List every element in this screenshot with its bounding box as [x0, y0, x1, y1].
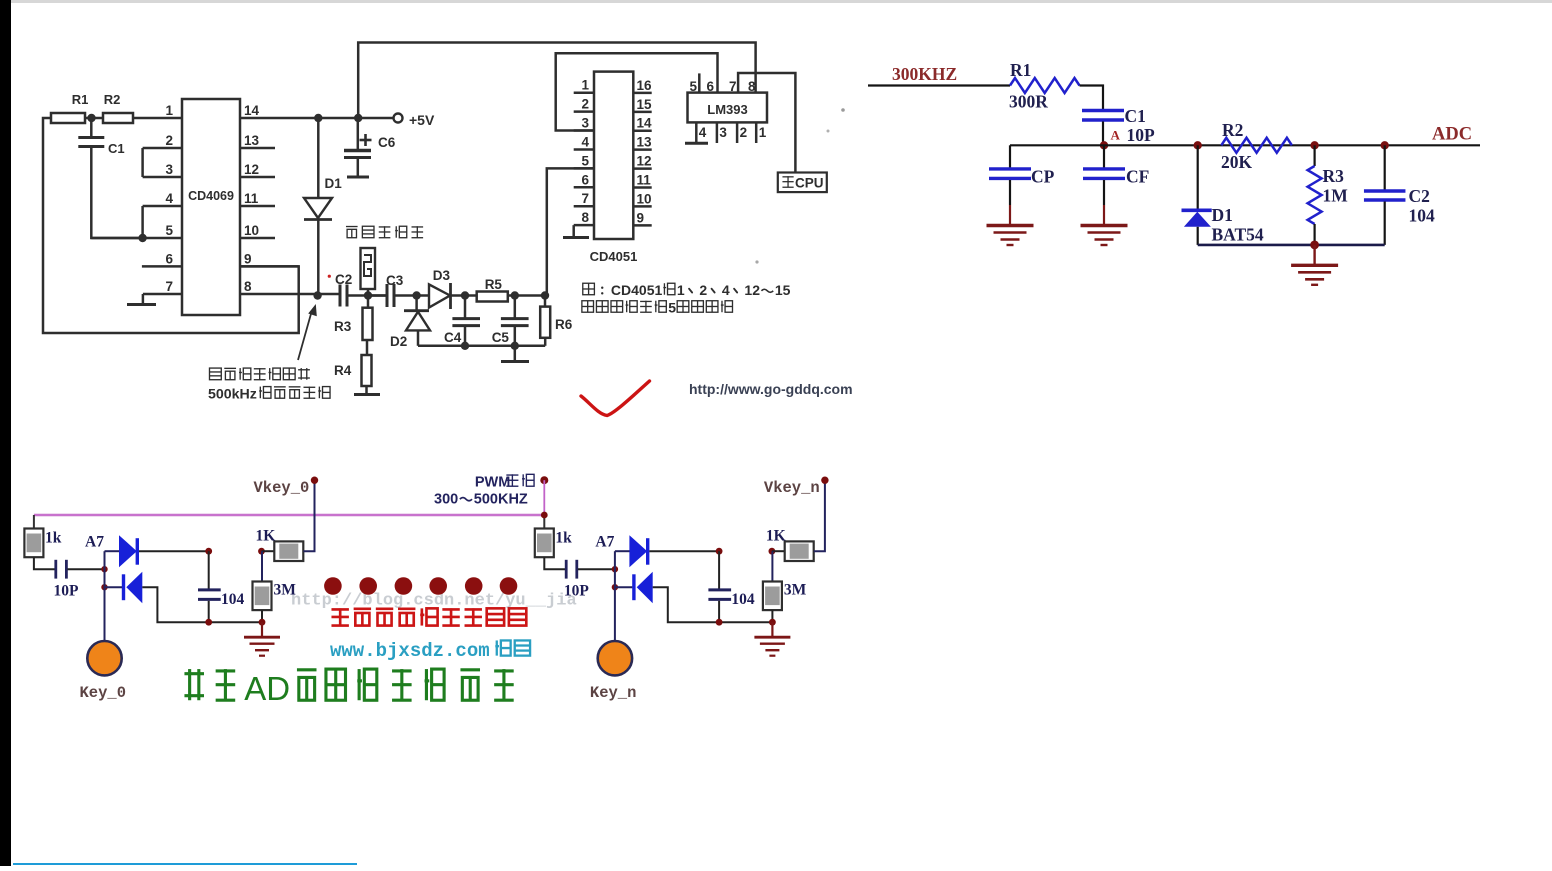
- resistor 1K (unit 0): [256, 528, 304, 562]
- wire A7 riser (unit n): [614, 551, 616, 587]
- svg-text:1K: 1K: [766, 528, 786, 545]
- capacitor 104 (unit 0): [198, 551, 245, 622]
- svg-text:4: 4: [581, 134, 589, 149]
- svg-text:3: 3: [581, 116, 589, 131]
- CD4051 pin 5: [574, 153, 594, 168]
- svg-text:7: 7: [581, 191, 589, 206]
- wire Vkey_n riser: [814, 480, 825, 551]
- label: spring touch key: [346, 226, 423, 237]
- svg-text:6: 6: [707, 79, 715, 94]
- diode up-branch (unit n): [615, 535, 719, 567]
- svg-text:http://www.go-gddq.com: http://www.go-gddq.com: [689, 381, 853, 397]
- CD4051 pin 13: [633, 135, 652, 150]
- LM393 pin 6: [707, 79, 715, 94]
- svg-text:C2: C2: [335, 272, 352, 287]
- CD4051 pin 6: [574, 172, 594, 187]
- IC U2 CD4051 body: [590, 72, 638, 264]
- spring touch key symbol: [361, 248, 376, 296]
- svg-text:300R: 300R: [1009, 92, 1048, 112]
- svg-text:500kHz: 500kHz: [208, 387, 257, 403]
- +5V terminal: [394, 112, 435, 128]
- svg-text:CF: CF: [1126, 167, 1149, 187]
- wire bottom rail D1-R3-C2: [1198, 244, 1385, 247]
- node 104 bottom junction (unit n): [716, 619, 723, 626]
- svg-text:LM393: LM393: [707, 102, 747, 117]
- resistor R2: [103, 92, 133, 123]
- svg-text:10: 10: [637, 191, 652, 206]
- svg-text:8: 8: [748, 79, 756, 94]
- node main-D1 junction: [1194, 141, 1202, 149]
- svg-text:1: 1: [165, 103, 173, 118]
- capacitor C5: [492, 296, 529, 346]
- node D3 - C4 - R5 junction: [461, 291, 469, 299]
- svg-text:104: 104: [1409, 206, 1436, 226]
- svg-text:12: 12: [637, 154, 652, 169]
- CD4069 pin 6: [142, 251, 182, 266]
- diode D1 BAT54: [1182, 145, 1264, 245]
- svg-text:Key_n: Key_n: [590, 684, 637, 702]
- node filter cap top junction (unit 0): [205, 548, 212, 555]
- svg-text:C1: C1: [1125, 106, 1146, 126]
- wire A7 riser (unit 0): [104, 551, 106, 587]
- caption: any number of identical units (red): [331, 608, 526, 625]
- capacitor 104 (unit n): [708, 551, 755, 622]
- svg-text:5: 5: [668, 300, 676, 316]
- wire CD4051 pin3 to LM393 pin 6 (inner top wire): [556, 53, 718, 130]
- resistor 1k (unit 0): [24, 515, 61, 557]
- terminal Vkey_n: [764, 477, 829, 498]
- node pin14 - +5V riser junction: [354, 114, 362, 122]
- CD4051 pin 14: [633, 116, 652, 131]
- svg-text:13: 13: [637, 135, 653, 150]
- svg-text:BAT54: BAT54: [1212, 225, 1264, 245]
- svg-text:R4: R4: [334, 363, 352, 378]
- to-CPU box: [778, 173, 827, 193]
- svg-text:104: 104: [731, 591, 755, 608]
- node lower branch junction (unit n): [612, 584, 618, 590]
- svg-text:CD4051: CD4051: [590, 249, 638, 264]
- wire C1 to pin 5 line: [91, 147, 142, 239]
- node ground junction (unit n): [769, 619, 776, 626]
- svg-text:4: 4: [165, 191, 173, 206]
- CD4069 pin 8: [240, 279, 340, 294]
- CD4069 pin 12: [240, 162, 275, 177]
- node R2-R3 junction: [1310, 141, 1318, 149]
- resistor 3M (unit n): [763, 551, 807, 622]
- svg-text:CP: CP: [1031, 167, 1055, 187]
- diode down-branch (unit n): [615, 572, 773, 623]
- svg-text:CD4051: CD4051: [611, 282, 663, 298]
- svg-text:12: 12: [744, 282, 760, 298]
- svg-text:D1: D1: [325, 176, 343, 191]
- CD4051 pin 4: [574, 134, 594, 149]
- node ground junction (unit 0): [259, 619, 266, 626]
- LM393 pin 1: [756, 122, 767, 143]
- svg-text:Vkey_n: Vkey_n: [764, 479, 820, 497]
- svg-text:2: 2: [581, 97, 589, 112]
- svg-text:Key_0: Key_0: [80, 684, 127, 702]
- LM393 pin 5: [689, 73, 699, 94]
- svg-text:C3: C3: [386, 273, 404, 288]
- svg-text:CD4069: CD4069: [188, 189, 234, 203]
- capacitor C2 of CD4069 section: [335, 272, 352, 307]
- svg-text:11: 11: [244, 191, 259, 206]
- svg-text:8: 8: [244, 279, 252, 294]
- svg-text:16: 16: [637, 78, 653, 93]
- CD4051 pin 8: [574, 210, 594, 225]
- svg-text:1M: 1M: [1323, 186, 1349, 206]
- svg-text:3M: 3M: [784, 582, 807, 599]
- node 1K-3M junction (unit n): [769, 548, 776, 555]
- diode D3: [405, 268, 465, 309]
- svg-text:8: 8: [581, 210, 589, 225]
- wire PWM line (magenta): [34, 513, 544, 517]
- wire CD4069 pins 2-3 link: [141, 148, 144, 177]
- wire C2 to spring key node: [347, 294, 387, 297]
- resistor R3 of CD4069 section: [334, 296, 373, 341]
- svg-text:3M: 3M: [274, 582, 297, 599]
- svg-text:ADC: ADC: [1432, 125, 1472, 145]
- terminal PWM with drop to unit n: [540, 476, 548, 518]
- svg-text:A: A: [1111, 128, 1121, 143]
- wire main node row to ADC: [1010, 144, 1480, 146]
- touch pad Key_n: [590, 587, 637, 702]
- CD4069 pin 4: [143, 191, 182, 206]
- node 104 bottom junction (unit 0): [205, 619, 212, 626]
- CD4051 pin 2: [574, 97, 594, 112]
- terminal Vkey_0: [254, 477, 319, 498]
- label A7 (unit n): [595, 534, 614, 551]
- wire C5 node to R6 node: [515, 294, 545, 297]
- LM393 pin 7 to CPU: [729, 73, 795, 173]
- svg-text:A7: A7: [85, 534, 104, 551]
- svg-text:R2: R2: [104, 92, 121, 107]
- svg-text:C6: C6: [378, 135, 396, 150]
- svg-text:1: 1: [677, 282, 685, 298]
- svg-text:2: 2: [699, 282, 707, 298]
- resistor R4 of CD4069 section: [334, 340, 380, 395]
- svg-text:6: 6: [165, 251, 173, 266]
- red speck near C2: [328, 275, 331, 278]
- node R5 - C5 junction: [511, 291, 519, 299]
- svg-text:10P: 10P: [54, 583, 80, 600]
- CD4069 pin 7: [143, 279, 182, 294]
- CD4069 pin 2: [143, 133, 182, 148]
- caption: www.bjxsdz.com (teal): [330, 640, 530, 662]
- CD4051 pin 15: [633, 97, 652, 112]
- node spring key junction: [364, 291, 372, 299]
- svg-text:3: 3: [719, 125, 727, 140]
- ground at rail: [1291, 245, 1338, 285]
- svg-text:1: 1: [581, 78, 589, 93]
- svg-text:10: 10: [244, 223, 259, 238]
- note text about CD4051 pins: [582, 282, 791, 316]
- svg-text:1k: 1k: [555, 530, 572, 547]
- svg-text:D3: D3: [433, 268, 451, 283]
- wire CD4051 pin5 to R6 node: [547, 168, 594, 295]
- wire R2 to CD4069 pin 1: [133, 117, 182, 120]
- node lower branch junction (unit 0): [101, 584, 107, 590]
- ground (unit 0): [244, 622, 280, 656]
- node A: [1100, 128, 1121, 150]
- wire bottom rail D2-C4-C5-R6: [418, 345, 545, 348]
- svg-text:PWM: PWM: [475, 475, 510, 491]
- node main-C2 junction: [1381, 141, 1389, 149]
- node R1-R2-C1 junction: [87, 114, 95, 122]
- label PWM signal: [434, 474, 534, 507]
- node C1 wire - pin5 junction: [138, 234, 146, 242]
- svg-text:C5: C5: [492, 330, 510, 345]
- svg-text:20K: 20K: [1221, 152, 1253, 172]
- svg-text:D2: D2: [390, 334, 407, 349]
- CD4051 pin 7: [574, 191, 594, 206]
- svg-text:15: 15: [775, 282, 791, 298]
- svg-text:5: 5: [165, 223, 173, 238]
- LM393 pin 4: [696, 122, 707, 143]
- svg-text:R6: R6: [555, 317, 573, 332]
- svg-text:4: 4: [722, 282, 730, 298]
- wire R1 to R2: [85, 117, 103, 120]
- svg-text:C1: C1: [108, 141, 125, 156]
- svg-text:R5: R5: [485, 277, 503, 292]
- net label 300KHZ with input wire: [868, 64, 1010, 86]
- capacitor 10P (unit n): [544, 557, 614, 599]
- node R6 top junction: [541, 291, 549, 299]
- ground at LM393 pin 4: [685, 142, 708, 145]
- svg-text:4: 4: [699, 125, 707, 140]
- net label ADC: [1432, 125, 1472, 145]
- capacitor C1: [78, 118, 124, 156]
- ground at C5 rail: [501, 346, 529, 362]
- capacitor C2 104: [1364, 145, 1435, 245]
- svg-text:A7: A7: [595, 534, 614, 551]
- IC U3 LM393 body: [688, 93, 768, 123]
- svg-text:2: 2: [165, 133, 173, 148]
- node A7 input junction (unit n): [612, 566, 618, 572]
- capacitor C6: [344, 118, 396, 177]
- svg-text:3: 3: [165, 162, 173, 177]
- svg-text:9: 9: [637, 210, 645, 225]
- node rail center junction: [1310, 241, 1319, 250]
- IC U1 CD4069 body: [182, 99, 240, 315]
- LM393 pin 3: [717, 122, 728, 143]
- svg-text:Vkey_0: Vkey_0: [254, 479, 310, 497]
- node C5 rail junction: [511, 342, 519, 350]
- svg-text:13: 13: [244, 133, 260, 148]
- resistor 1k (unit n): [535, 515, 572, 557]
- capacitor C3: [368, 273, 405, 307]
- capacitor CF with ground: [1081, 145, 1150, 245]
- svg-text:+5V: +5V: [409, 112, 435, 128]
- resistor R2 20K: [1221, 120, 1292, 172]
- svg-text:300KHZ: 300KHZ: [892, 64, 957, 84]
- CD4051 pin 16: [633, 78, 652, 93]
- svg-text:www.bjxsdz.com: www.bjxsdz.com: [330, 640, 490, 662]
- diode down-branch (unit 0): [105, 572, 263, 623]
- CD4069 pin 10: [240, 223, 275, 238]
- title: touch keys using AD method (green): [184, 669, 513, 707]
- CD4051 pin 9: [633, 210, 651, 225]
- svg-text:10P: 10P: [1127, 125, 1156, 145]
- CD4069 pin 9: [240, 251, 299, 266]
- capacitor CP with ground: [987, 145, 1055, 245]
- svg-text:AD: AD: [244, 670, 290, 707]
- resistor R3 1M: [1308, 145, 1349, 245]
- svg-text:CPU: CPU: [795, 176, 824, 191]
- ground at CD4069 pin 7: [127, 294, 156, 305]
- CD4051 pin 10: [633, 191, 651, 206]
- svg-text:C4: C4: [444, 330, 462, 345]
- CD4069 pin 14: [240, 103, 394, 118]
- CD4069 pin 11: [240, 191, 275, 206]
- annotation arrow to pin8 node: [298, 304, 317, 360]
- svg-text:104: 104: [221, 591, 245, 608]
- ground at CD4051 pin 8: [563, 225, 589, 237]
- wire +5V rail to LM393 pin 8 (top outer wire): [358, 43, 755, 119]
- touch pad Key_0: [80, 587, 127, 702]
- resistor 3M (unit 0): [253, 551, 297, 622]
- svg-text:9: 9: [244, 251, 252, 266]
- wire CD4069 pins 4-5 link: [141, 206, 144, 238]
- watermark blog.csdn.net: [291, 592, 577, 611]
- svg-text:5: 5: [581, 153, 589, 168]
- CD4069 pin 5: [91, 223, 182, 238]
- resistor R6: [540, 296, 573, 346]
- svg-text:11: 11: [637, 173, 652, 188]
- LM393 pin 2: [737, 122, 747, 143]
- node A7 input junction (unit 0): [101, 566, 107, 572]
- CD4051 pin 1: [574, 78, 594, 93]
- annotation text: square wave note: [208, 368, 330, 402]
- node filter cap top junction (unit n): [716, 548, 723, 555]
- svg-text:15: 15: [637, 97, 653, 112]
- svg-text:5: 5: [689, 79, 697, 94]
- wire feedback loop from CD4069 pin 9 to R1 left: [43, 118, 299, 333]
- node 1K-3M junction (unit 0): [258, 548, 265, 555]
- svg-text:14: 14: [637, 116, 653, 131]
- resistor R1: [51, 92, 88, 123]
- CD4051 pin 11: [633, 173, 651, 188]
- capacitor C1 10P: [1082, 106, 1155, 145]
- svg-text:7: 7: [165, 279, 173, 294]
- wire Vkey_0 riser: [303, 480, 314, 551]
- svg-text:14: 14: [244, 103, 260, 118]
- svg-text:R1: R1: [72, 92, 89, 107]
- label A7 (unit 0): [85, 534, 104, 551]
- svg-text:R3: R3: [1323, 166, 1345, 186]
- svg-text:1K: 1K: [256, 528, 276, 545]
- svg-text:1: 1: [759, 125, 767, 140]
- svg-text:R2: R2: [1222, 120, 1243, 140]
- svg-text:12: 12: [244, 162, 259, 177]
- diode D1 of CD4069 section: [304, 118, 342, 296]
- watermark url go-gddq: [689, 381, 853, 397]
- CD4069 pin 3: [143, 162, 182, 177]
- node pin8 output junction: [313, 291, 321, 299]
- node C3 - D2 - D3 junction: [412, 291, 420, 299]
- LM393 pin 8: [748, 79, 756, 94]
- resistor 1K (unit n): [766, 528, 814, 562]
- svg-text:D1: D1: [1212, 205, 1233, 225]
- node C4 rail junction: [461, 342, 469, 350]
- svg-text:500KHZ: 500KHZ: [474, 492, 528, 508]
- CD4051 pin 3: [574, 116, 594, 131]
- diode D2: [390, 296, 430, 350]
- resistor R1 300R: [1009, 60, 1080, 112]
- svg-text:300: 300: [434, 492, 458, 508]
- svg-text:R3: R3: [334, 319, 352, 334]
- CD4069 pin 1: [165, 103, 173, 118]
- red handwritten check mark: [581, 381, 650, 416]
- diode up-branch (unit 0): [105, 535, 209, 567]
- svg-text:7: 7: [729, 79, 737, 94]
- svg-text:1k: 1k: [45, 530, 62, 547]
- capacitor 10P (unit 0): [34, 557, 104, 599]
- svg-text:10P: 10P: [564, 583, 590, 600]
- resistor R5: [465, 277, 515, 302]
- CD4069 pin 13: [240, 133, 275, 148]
- svg-text:R1: R1: [1010, 60, 1031, 80]
- wire R1 to C1: [1080, 86, 1104, 110]
- capacitor C4: [444, 296, 480, 346]
- svg-text:6: 6: [581, 172, 589, 187]
- repetition dots: [324, 577, 517, 595]
- ground (unit n): [754, 622, 790, 656]
- node pin14 - D1 junction: [314, 114, 322, 122]
- CD4051 pin 12: [633, 154, 651, 169]
- svg-text:C2: C2: [1409, 186, 1430, 206]
- svg-text:2: 2: [740, 125, 748, 140]
